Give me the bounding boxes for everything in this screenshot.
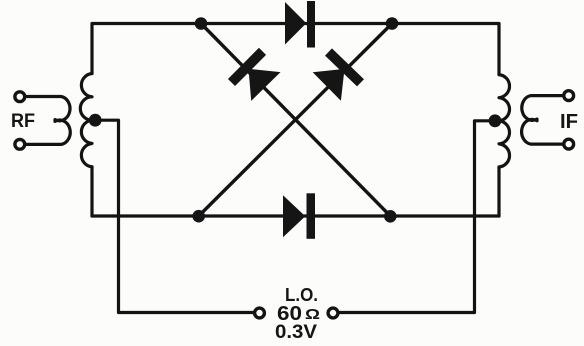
transformer T1 primary (RF winding) [25,97,70,145]
wire bottom bus [92,214,499,217]
diode D4 (right middle) triangle [313,69,345,101]
svg-text:0.3V: 0.3V [275,321,317,343]
node junction dot top-left [195,17,208,30]
terminal IF bottom [564,139,574,149]
wire left rail lower [90,167,93,216]
diode D4 (right middle) cathode bar [329,52,361,83]
wire right rail lower [497,167,500,216]
diode D1 (top) cathode bar [307,1,315,48]
node center-tap dot left [89,114,102,127]
diode D1 (top) triangle [285,2,306,45]
node junction dot bottom-right [384,210,397,223]
terminal IF top [564,91,574,101]
wire right center-tap to L.O. [338,121,499,313]
svg-text:L.O.: L.O. [285,285,318,305]
wire diagonal TR-BL [199,24,392,217]
terminal L.O. right [328,308,338,318]
terminal RF bottom [15,139,25,149]
node center-tap dot right [489,114,502,127]
diode D2 (bottom) triangle [283,195,305,237]
transformer T1 secondary (left coil) [80,74,92,167]
diode D2 (bottom) cathode bar [307,193,316,239]
wire top bus [92,24,499,75]
svg-text:RF: RF [11,110,35,132]
svg-text:IF: IF [560,111,578,133]
node junction dot top-right [386,17,399,30]
terminal RF top [15,92,25,102]
wire diagonal TL-BR [201,24,390,217]
node junction dot bottom-left [192,210,205,223]
diode D3 (left middle) triangle [249,69,281,101]
transformer T2 secondary (right coil) [499,75,510,167]
diode D3 (left middle) cathode bar [232,51,263,82]
wire left center-tap to L.O. [92,120,255,312]
terminal L.O. left [255,308,265,318]
transformer T2 secondary (IF winding) [522,96,564,145]
